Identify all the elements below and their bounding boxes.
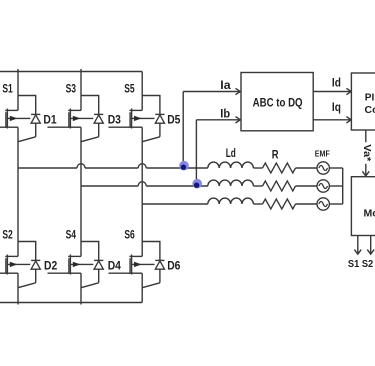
gate lead S1 (0, 126, 6, 128)
svg-text:Modulator: Modulator (364, 208, 375, 220)
wire source diagonal S2 (18, 283, 36, 288)
svg-text:ABC to DQ: ABC to DQ (253, 95, 303, 109)
svg-text:EMF: EMF (315, 150, 330, 159)
transistor S5 (124, 82, 154, 129)
svg-text:Iq: Iq (332, 100, 341, 114)
wire A resistor to EMF (296, 167, 317, 169)
wire phase A (18, 167, 77, 169)
wire hop phase A over leg3 (138, 164, 146, 168)
wire leg1 S1 source to S2 drain (17, 127, 19, 256)
svg-text:S1: S1 (2, 82, 13, 96)
wire A inductor to resistor (253, 167, 262, 169)
wire drain jog S2 to D2 (18, 242, 36, 261)
gate lead S6 (109, 272, 131, 274)
source EMF phase A (317, 162, 329, 174)
wire top DC rail (0, 71, 142, 73)
svg-text:S6: S6 (124, 228, 135, 242)
gate lead S2 (0, 272, 6, 274)
svg-text:R: R (272, 147, 279, 161)
svg-text:Controller: Controller (365, 104, 375, 116)
wire leg2 drain S3 (80, 69, 82, 110)
wire C inductor to resistor (253, 203, 262, 205)
wire leg3 drain S5 (141, 72, 143, 111)
svg-text:PI: PI (365, 91, 375, 103)
wire hop phase B over leg3 (138, 182, 146, 186)
transistor S4 (66, 228, 94, 275)
resistor R phase A (263, 163, 296, 173)
svg-text:D1: D1 (43, 113, 56, 127)
diode D5 (155, 113, 180, 137)
wire B EMF to star point (330, 185, 343, 187)
wire drain jog S4 to D4 (81, 242, 99, 261)
resistor R phase C (263, 199, 296, 209)
svg-text:Va*: Va* (361, 144, 373, 162)
inductor Ld phase C (208, 198, 254, 204)
wire gate signal S1 output arrow (354, 236, 361, 255)
wire leg1 drain S1 (17, 69, 19, 110)
svg-text:Ia: Ia (220, 78, 231, 92)
diode D4 (94, 259, 121, 283)
source EMF phase B (317, 180, 329, 192)
wire source diagonal S5 (142, 137, 160, 142)
block ABC to DQ (U1) (241, 73, 313, 131)
wire Ib arrow into ABC to DQ (196, 107, 240, 124)
wire bottom DC rail (0, 302, 142, 304)
resistor R phase B (263, 181, 296, 191)
diode D1 (31, 113, 57, 137)
gate lead S5 (109, 126, 131, 128)
diode D3 (94, 113, 121, 137)
svg-text:Id: Id (332, 75, 341, 89)
wire A EMF to star point (330, 167, 343, 169)
wire hop phase A over leg2 (77, 164, 85, 168)
wire leg3 S6 source to bottom rail (141, 273, 143, 302)
wire Ia arrow into ABC to DQ (183, 78, 240, 95)
wire source diagonal S1 (18, 137, 36, 142)
wire drain jog S6 to D6 (142, 242, 160, 261)
wire source diagonal S4 (81, 283, 99, 288)
diode D2 (31, 259, 57, 283)
transistor S2 (2, 228, 30, 275)
wire C EMF to star point (330, 203, 343, 205)
svg-text:S5: S5 (124, 82, 135, 96)
svg-text:S3: S3 (66, 82, 77, 96)
wire C resistor to EMF (296, 203, 317, 205)
inductor Ld phase A (208, 162, 254, 168)
wire Ia riser (182, 92, 184, 169)
wire gate signal S2 output arrow (367, 236, 374, 255)
wire leg3 S5 source to S6 drain (141, 127, 143, 256)
wire drain jog S3 to D3 (81, 96, 99, 115)
wire drain jog S1 to D1 (18, 96, 36, 115)
wire leg2 S3 source to S4 drain (80, 127, 82, 256)
wire phase B to inductor (146, 185, 208, 187)
wire phase C to inductor (142, 203, 208, 205)
wire source diagonal S3 (81, 137, 99, 142)
gate lead S3 (48, 126, 69, 128)
transistor S1 (2, 82, 30, 129)
inductor Ld phase B (208, 180, 254, 186)
svg-text:S4: S4 (66, 228, 77, 242)
wire leg1 S2 source to bottom rail (17, 273, 19, 304)
diode D6 (155, 259, 180, 283)
block modulator (U3) (351, 177, 375, 236)
svg-text:D4: D4 (108, 259, 121, 273)
wire source diagonal S6 (142, 283, 160, 288)
wire Va* from PI controller to modulator (361, 130, 373, 176)
node phase A tap (blue dot) (179, 161, 189, 171)
wire phase B (81, 185, 138, 187)
wire leg2 S4 source to bottom rail (80, 273, 82, 304)
transistor S3 (66, 82, 94, 129)
wire star point (342, 168, 344, 204)
wire Ib riser (195, 120, 197, 186)
wire B inductor to resistor (253, 185, 262, 187)
transistor S6 (124, 228, 154, 275)
block PI controller (U2) (351, 73, 375, 130)
svg-text:D2: D2 (44, 259, 57, 273)
node phase B tap (blue dot) (192, 179, 202, 189)
svg-text:Ib: Ib (220, 107, 230, 121)
wire drain jog S5 to D5 (142, 96, 160, 115)
svg-text:D3: D3 (108, 113, 121, 127)
wire Iq arrow to PI controller (313, 100, 351, 123)
svg-text:D6: D6 (167, 259, 180, 273)
svg-text:D5: D5 (167, 113, 180, 127)
gate lead S4 (48, 272, 69, 274)
wire Id arrow to PI controller (313, 75, 351, 94)
wire B resistor to EMF (296, 185, 317, 187)
wire phase A middle (85, 167, 138, 169)
svg-text:Ld: Ld (226, 146, 236, 160)
svg-text:S2: S2 (2, 228, 13, 242)
svg-text:S1 S2: S1 S2 (348, 258, 373, 270)
source EMF phase C (317, 198, 329, 210)
wire phase A to inductor (146, 167, 208, 169)
